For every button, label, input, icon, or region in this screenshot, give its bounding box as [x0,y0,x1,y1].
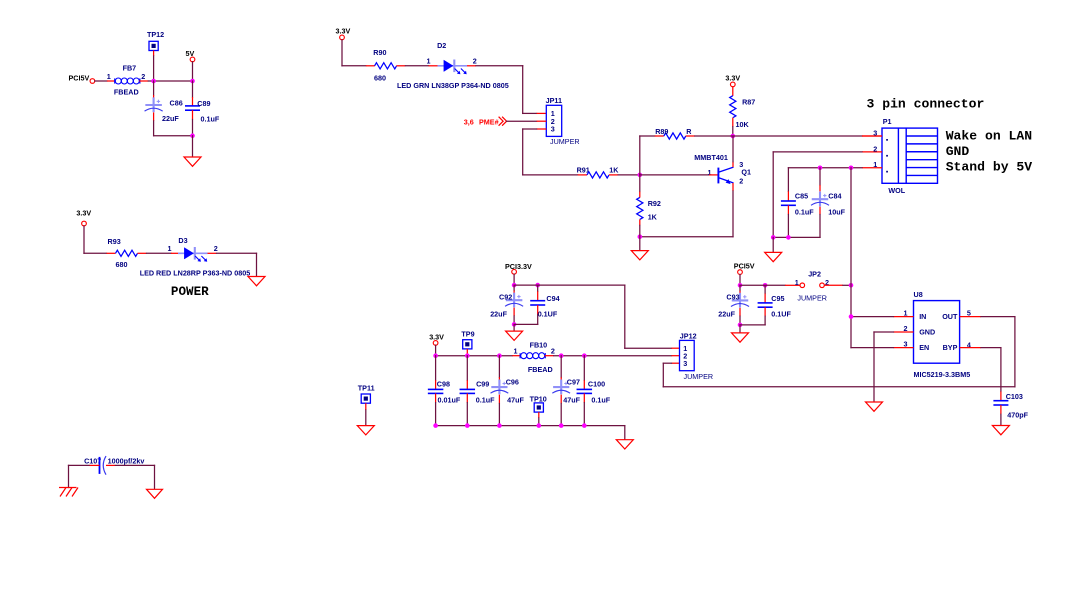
svg-text:3.3V: 3.3V [76,209,91,218]
svg-text:C99: C99 [476,379,489,388]
svg-text:1K: 1K [609,166,619,175]
svg-text:PCI5V: PCI5V [69,74,90,83]
svg-text:1: 1 [514,347,518,356]
svg-text:3,6: 3,6 [464,118,474,127]
svg-text:Q1: Q1 [741,167,751,176]
svg-text:0.1uF: 0.1uF [591,395,610,404]
svg-text:MIC5219-3.3BM5: MIC5219-3.3BM5 [914,370,971,379]
svg-text:U8: U8 [914,290,923,299]
svg-text:PCI3.3V: PCI3.3V [505,262,532,271]
svg-text:EN: EN [919,343,929,352]
svg-text:3.3V: 3.3V [336,27,351,36]
svg-text:1: 1 [427,57,431,66]
svg-text:JP2: JP2 [808,270,821,279]
svg-text:JP11: JP11 [546,96,562,105]
svg-text:R87: R87 [742,97,755,106]
svg-text:C89: C89 [197,99,210,108]
svg-text:PCI5V: PCI5V [734,261,755,270]
svg-text:680: 680 [116,260,128,269]
svg-text:10K: 10K [736,120,750,129]
svg-text:2: 2 [873,144,877,153]
svg-text:2: 2 [141,72,145,81]
svg-text:C98: C98 [437,379,450,388]
svg-text:3 pin connector: 3 pin connector [867,97,985,112]
svg-text:OUT: OUT [942,312,958,321]
svg-text:Stand by 5V: Stand by 5V [946,160,1033,175]
svg-text:GND: GND [946,144,970,159]
svg-text:2: 2 [473,57,477,66]
svg-text:TP12: TP12 [147,30,164,39]
svg-text:BYP: BYP [943,343,958,352]
svg-text:47uF: 47uF [563,395,580,404]
svg-text:C86: C86 [170,98,183,107]
svg-text:C103: C103 [1006,392,1023,401]
svg-text:3.3V: 3.3V [429,332,444,341]
svg-text:22uF: 22uF [162,114,179,123]
svg-text:PME#: PME# [479,118,499,127]
svg-text:R89: R89 [655,127,668,136]
svg-text:C100: C100 [588,379,605,388]
svg-text:3: 3 [683,359,687,368]
svg-text:1K: 1K [648,213,658,222]
svg-text:FB10: FB10 [530,341,548,350]
svg-text:LED RED LN28RP P363-ND 0805: LED RED LN28RP P363-ND 0805 [140,269,251,278]
svg-text:2: 2 [551,347,555,356]
svg-text:0.1uF: 0.1uF [795,207,814,216]
svg-text:0.1UF: 0.1UF [771,310,791,319]
svg-text:C84: C84 [828,191,841,200]
svg-text:0.1UF: 0.1UF [538,309,558,318]
svg-text:JUMPER: JUMPER [550,137,580,146]
svg-text:1: 1 [168,244,172,253]
svg-text:0.1uF: 0.1uF [201,115,220,124]
svg-text:TP10: TP10 [530,394,547,403]
svg-text:1: 1 [107,72,111,81]
svg-text:TP9: TP9 [461,329,474,338]
svg-text:C97: C97 [567,377,580,386]
svg-text:C95: C95 [771,294,784,303]
svg-text:3: 3 [873,128,877,137]
svg-text:TP11: TP11 [358,383,375,392]
svg-text:22uF: 22uF [490,309,507,318]
svg-text:FB7: FB7 [123,63,137,72]
svg-text:POWER: POWER [171,285,209,299]
svg-text:R: R [686,127,692,136]
svg-text:P1: P1 [883,117,892,126]
svg-text:C92: C92 [499,292,512,301]
svg-text:GND: GND [919,327,935,336]
svg-text:22uF: 22uF [718,310,735,319]
svg-text:10uF: 10uF [828,207,845,216]
svg-text:C93: C93 [726,293,739,302]
svg-text:1: 1 [708,168,712,177]
svg-text:1000pf/2kv: 1000pf/2kv [108,456,145,465]
svg-text:2: 2 [739,177,743,186]
svg-text:WOL: WOL [888,186,905,195]
svg-text:R92: R92 [648,199,661,208]
svg-text:D2: D2 [437,41,446,50]
svg-text:680: 680 [374,74,386,83]
svg-text:LED GRN LN38GP P364-ND 0805: LED GRN LN38GP P364-ND 0805 [397,81,509,90]
svg-text:47uF: 47uF [507,395,524,404]
svg-text:1: 1 [873,160,877,169]
svg-text:MMBT401: MMBT401 [694,153,728,162]
svg-text:IN: IN [919,312,926,321]
svg-text:R90: R90 [373,48,386,57]
svg-text:470pF: 470pF [1007,410,1028,419]
svg-text:C85: C85 [795,191,808,200]
svg-text:3.3V: 3.3V [725,74,740,83]
svg-text:D3: D3 [178,236,187,245]
svg-text:JUMPER: JUMPER [797,294,827,303]
svg-text:FBEAD: FBEAD [114,88,139,97]
svg-text:R93: R93 [108,237,121,246]
svg-text:JUMPER: JUMPER [684,372,714,381]
svg-text:2: 2 [214,244,218,253]
svg-text:1: 1 [795,278,799,287]
svg-text:FBEAD: FBEAD [528,365,553,374]
svg-text:0.01uF: 0.01uF [438,395,461,404]
svg-text:0.1uF: 0.1uF [476,395,495,404]
svg-text:C94: C94 [546,294,559,303]
svg-text:3: 3 [551,125,555,134]
svg-text:Wake on LAN: Wake on LAN [946,129,1032,144]
svg-text:JP12: JP12 [680,332,697,341]
svg-text:C96: C96 [506,377,519,386]
